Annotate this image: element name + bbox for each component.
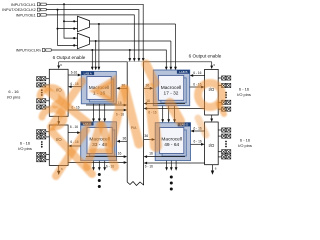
I/O pad pair lower-left row2 [37, 135, 50, 139]
wire IO to LAB A 6-16 [68, 74, 78, 76]
I/O control block lower right [205, 122, 219, 165]
arrowhead GCLRn into LAB B [165, 67, 168, 71]
wire IO to LAB D 6-16 [193, 130, 204, 132]
arrowhead below LAB C x104.7 [103, 167, 106, 171]
junction dot mux2 x95.7 [95, 40, 97, 42]
wire LAB A drop from mux1 [98, 24, 100, 68]
wire LAB A to IO 6-16 [71, 86, 81, 88]
arrowhead L1 corner onto bus [142, 58, 145, 62]
svg-text:36: 36 [144, 134, 148, 138]
svg-text:I/O pins: I/O pins [238, 143, 252, 148]
svg-text:6 - 16: 6 - 16 [8, 89, 19, 94]
I/O pad pair upper-left row4 [37, 105, 50, 109]
wire LAB B to LAB D global 1 [162, 106, 164, 120]
junction dot GCLRn x92.3 [91, 49, 93, 51]
arrowhead 6-16 into PIA left [124, 109, 128, 112]
wire LAB D continuation 2 [170, 161, 172, 168]
junction dot L1 x64 [63, 3, 65, 5]
svg-text:6 - 16: 6 - 16 [145, 165, 153, 169]
arrowhead into LAB A x92.3 [91, 67, 94, 71]
svg-text:6 - 16: 6 - 16 [20, 140, 31, 145]
LAB D macrocell shadow [162, 130, 186, 156]
wire LAB C 16 feedback [86, 156, 124, 158]
wire mux U2 output [90, 40, 171, 42]
svg-text:Macrocell: Macrocell [161, 85, 182, 91]
wire LAB C to IO 6-16 [71, 145, 81, 147]
arrowhead below lower IO left [57, 171, 60, 175]
I/O pad pair upper-left row3 [37, 99, 50, 103]
wire LAB A drop from GCLRn [91, 50, 93, 68]
arrowhead mux2 into LAB B [170, 67, 173, 71]
wire mux branch at y21.3 [64, 20, 78, 22]
svg-text:I/O: I/O [208, 143, 214, 148]
arrowhead into LAB C left [77, 131, 81, 134]
I/O control block upper right [205, 69, 219, 115]
ellipsis upper-right pads [225, 92, 227, 99]
svg-text:LAB B: LAB B [179, 70, 187, 74]
LAB C outer box [81, 122, 117, 161]
mux U2 lower trapezoid [78, 33, 90, 49]
svg-text:Macrocell: Macrocell [161, 137, 182, 143]
LAB A label bar [81, 71, 94, 75]
arrowhead lower IO left top [57, 121, 60, 125]
wire IO 6-16 feedback lower left [68, 162, 125, 164]
ellipsis dots below LAB C [98, 173, 101, 188]
arrowhead into LAB C x99.3 [98, 119, 101, 123]
svg-text:36: 36 [123, 136, 127, 140]
arrowhead 36 into LAB B [150, 87, 154, 90]
wire LAB B to IO 6-16 [190, 86, 202, 88]
wire IO 6-16 feedback upper right [146, 108, 204, 110]
ellipsis lower-left pads [41, 141, 43, 148]
svg-text:INPUT/OE1: INPUT/OE1 [16, 14, 36, 18]
I/O pad pair upper-right row2 [218, 83, 231, 87]
I/O pad pair lower-right row4 [218, 155, 231, 159]
svg-text:17 - 32: 17 - 32 [164, 91, 179, 97]
wire OE1 horizontal L3 [47, 15, 135, 59]
I/O control block lower left [49, 125, 68, 165]
wire LAB C continuation 1 [93, 161, 95, 168]
arrowhead L2 corner onto PIA top [138, 58, 141, 62]
arrowhead into LAB A x95.7 [94, 67, 97, 71]
macrocell box 33-48 [87, 128, 112, 154]
arrowhead into IO left [68, 85, 72, 88]
junction dot x64 y21.3 [63, 20, 65, 22]
arrowhead into LAB C x104.7 [103, 119, 106, 123]
LAB D outer box [155, 123, 190, 161]
arrowhead 16 into PIA left [124, 104, 128, 107]
arrowhead mux1 into LAB B [174, 67, 177, 71]
svg-text:INPUT/GCLRn: INPUT/GCLRn [16, 49, 41, 53]
arrowhead below LAB C x93.5 [92, 167, 95, 171]
I/O pad pair upper-left row1 [37, 77, 50, 81]
arrowhead below LAB D x171.3 [170, 167, 173, 171]
wire mux U1 output [90, 23, 176, 25]
svg-text:I/O pins: I/O pins [18, 146, 32, 151]
arrowhead 16 into PIA right [144, 102, 148, 105]
arrowhead below lower IO right [211, 171, 214, 175]
arrowhead below LAB D x176.1 [175, 167, 178, 171]
I/O pad pair upper-right row1 [218, 76, 231, 80]
arrowhead 16 into PIA lower left [124, 155, 128, 158]
svg-text:6 - 16: 6 - 16 [70, 125, 78, 129]
LAB B outer box [153, 70, 189, 106]
wire OE drop to left IO [58, 62, 60, 66]
watermark orange overlay [40, 64, 224, 176]
I/O pad pair upper-left row2 [37, 83, 50, 87]
arrowhead below LAB C x99.3 [98, 167, 101, 171]
arrowhead into LAB C x93.5 [92, 119, 95, 123]
wire below lower IO left [58, 165, 60, 172]
LAB A outer box [81, 71, 116, 103]
I/O pad pair lower-right row3 [218, 150, 231, 154]
arrowhead OE right IO [210, 66, 213, 70]
junction dot mux1 x98.9 [98, 23, 100, 25]
arrowhead 36 into LAB A [116, 87, 120, 90]
arrowhead 6-16 into PIA lower right [144, 162, 148, 165]
LAB A macrocell shadow [89, 79, 113, 102]
wire LAB A 16 feedback [86, 104, 124, 106]
LAB B macrocell shadow [161, 78, 186, 103]
wire PIA to LAB C 36 [119, 140, 127, 142]
ellipsis dots below LAB D [170, 176, 173, 191]
wire PIA to LAB A 36 [119, 87, 127, 89]
wire OE drop to right IO [211, 62, 213, 67]
wire OE2/GCLK2 horizontal L2 [47, 10, 139, 59]
LAB B label bar [177, 70, 190, 74]
mux U1 upper trapezoid [78, 16, 90, 32]
svg-text:6-16: 6-16 [71, 70, 78, 74]
wire GCLRn horizontal [52, 50, 167, 68]
junction dot PIA GCLRn [129, 49, 131, 51]
input pin symbol OE2/GCLK2 [37, 8, 46, 11]
wire PIA to LAB B 36 [144, 87, 151, 89]
wire LAB A to LAB C global 3 [104, 104, 106, 119]
svg-text:INPUT/OE2/GCLK2: INPUT/OE2/GCLK2 [2, 8, 36, 12]
wire mux feed vertical from L1 [64, 4, 78, 38]
wire LAB B 16 feedback [146, 103, 185, 105]
wire upper IO to lower IO left [58, 116, 60, 122]
LAB C label bar [81, 122, 94, 126]
I/O pad pair lower-right row2 [218, 134, 231, 138]
wire LAB C continuation 2 [98, 161, 100, 168]
wire GCLK1 horizontal L1 [47, 4, 144, 59]
arrowhead into IO lower right [201, 143, 205, 146]
macrocell box 17-32 [158, 75, 183, 100]
wire LAB A to LAB C global 2 [98, 104, 100, 119]
svg-text:INPUT/GCLK1: INPUT/GCLK1 [11, 3, 36, 7]
wire LAB D continuation 3 [175, 161, 177, 168]
wire LAB B to LAB D global 3 [174, 106, 176, 120]
arrowhead into LAB D x162.7 [161, 119, 164, 123]
wire IO 6-16 feedback lower right [146, 162, 204, 164]
wire below lower IO right [212, 165, 214, 172]
arrowhead OE left IO [57, 66, 60, 70]
wire mux branch at y28.6 [58, 28, 78, 30]
svg-text:6 - 16: 6 - 16 [239, 86, 250, 91]
I/O pad pair lower-left row3 [37, 152, 50, 156]
arrowhead into IO right [201, 86, 205, 89]
LAB C macrocell shadow [90, 130, 115, 156]
PIA vertical bar [127, 62, 143, 186]
arrowhead lower IO right top [210, 119, 213, 123]
I/O pad pair upper-right row4 [218, 107, 231, 111]
svg-text:I/O pins: I/O pins [7, 95, 21, 100]
svg-text:LAB A: LAB A [84, 71, 92, 75]
arrowhead 6-16 into PIA lower left [124, 161, 128, 164]
junction dot x57.5 y28.6 [57, 28, 59, 30]
arrowhead 36 into LAB C [117, 140, 121, 143]
input pin symbol GCLRn [42, 49, 51, 52]
wire IO to LAB B 6-16 [193, 75, 205, 77]
wire mux2 corner into LAB B [170, 41, 172, 68]
arrowhead into LAB D right [191, 130, 195, 133]
mux U2 input dot pin1 [73, 37, 75, 39]
arrowhead 16 into PIA lower right [144, 155, 148, 158]
svg-text:6 - 16: 6 - 16 [240, 137, 251, 142]
I/O pad pair lower-left row4 [37, 158, 50, 162]
arrowhead into LAB A x98.9 [98, 67, 101, 71]
wire PIA to LAB D 36 [144, 139, 153, 141]
arrowhead below LAB D x166.6 [165, 167, 168, 171]
macrocell box 49-64 [160, 128, 184, 154]
wire IO 6-16 feedback upper left [68, 109, 124, 111]
wire PIA drop from GCLRn [129, 50, 131, 59]
arrowhead into LAB D x168.7 [167, 119, 170, 123]
svg-text:16: 16 [149, 151, 153, 155]
wire upper IO to lower IO right [211, 115, 213, 119]
wire mux1 corner into LAB B [175, 24, 177, 68]
I/O pad pair lower-right row1 [218, 128, 231, 132]
I/O pad pair upper-right row3 [218, 100, 231, 104]
wire LAB A to LAB C global 1 [93, 104, 95, 119]
macrocell box 1-16 [87, 77, 111, 100]
arrowhead into LAB D x174.6 [173, 119, 176, 123]
svg-text:49 - 64: 49 - 64 [164, 142, 179, 148]
ellipsis lower-right pads [225, 141, 227, 148]
svg-text:I/O pins: I/O pins [237, 92, 251, 97]
LAB D label bar [178, 123, 191, 127]
I/O control block upper left [49, 69, 68, 116]
svg-text:6 - 16: 6 - 16 [193, 71, 201, 75]
wire LAB D 16 feedback [146, 156, 185, 158]
I/O pad pair lower-left row1 [37, 130, 50, 134]
svg-text:16: 16 [118, 151, 122, 155]
ellipsis upper-left pads [41, 89, 43, 96]
wire LAB D continuation 1 [166, 161, 168, 168]
mux U1 input dot pin2 [73, 28, 75, 30]
arrowhead into IO lower left [68, 145, 72, 148]
mux U1 input dot pin1 [73, 20, 75, 22]
arrowhead PIA x134 (L3 corner) [133, 58, 136, 62]
wire LAB B to LAB D global 2 [168, 106, 170, 120]
wire IO to LAB C 6-16 [68, 132, 78, 134]
svg-text:6 - 16: 6 - 16 [194, 140, 202, 144]
output enable bus [59, 61, 212, 63]
wire LAB C continuation 3 [104, 161, 106, 168]
junction dot L2 x57.5 [57, 9, 59, 11]
wire LAB D to IO 6-16 [191, 143, 202, 145]
wire LAB A drop from mux2 [95, 41, 97, 68]
input pin symbol GCLK1 [37, 3, 46, 6]
arrowhead 36 into LAB D [152, 138, 156, 141]
arrowhead into LAB B right [190, 74, 194, 77]
arrowhead 6-16 into PIA right [144, 107, 148, 110]
mux U2 input dot pin2 [73, 44, 75, 46]
svg-text:6 Output enable: 6 Output enable [53, 55, 86, 60]
arrowhead into LAB A left [78, 74, 82, 77]
input pin symbol OE1 [37, 13, 46, 16]
arrowhead PIA x129.8 [128, 58, 131, 62]
wire mux feed vertical from L2 [58, 10, 78, 46]
svg-text:6 Output enable: 6 Output enable [189, 54, 222, 59]
